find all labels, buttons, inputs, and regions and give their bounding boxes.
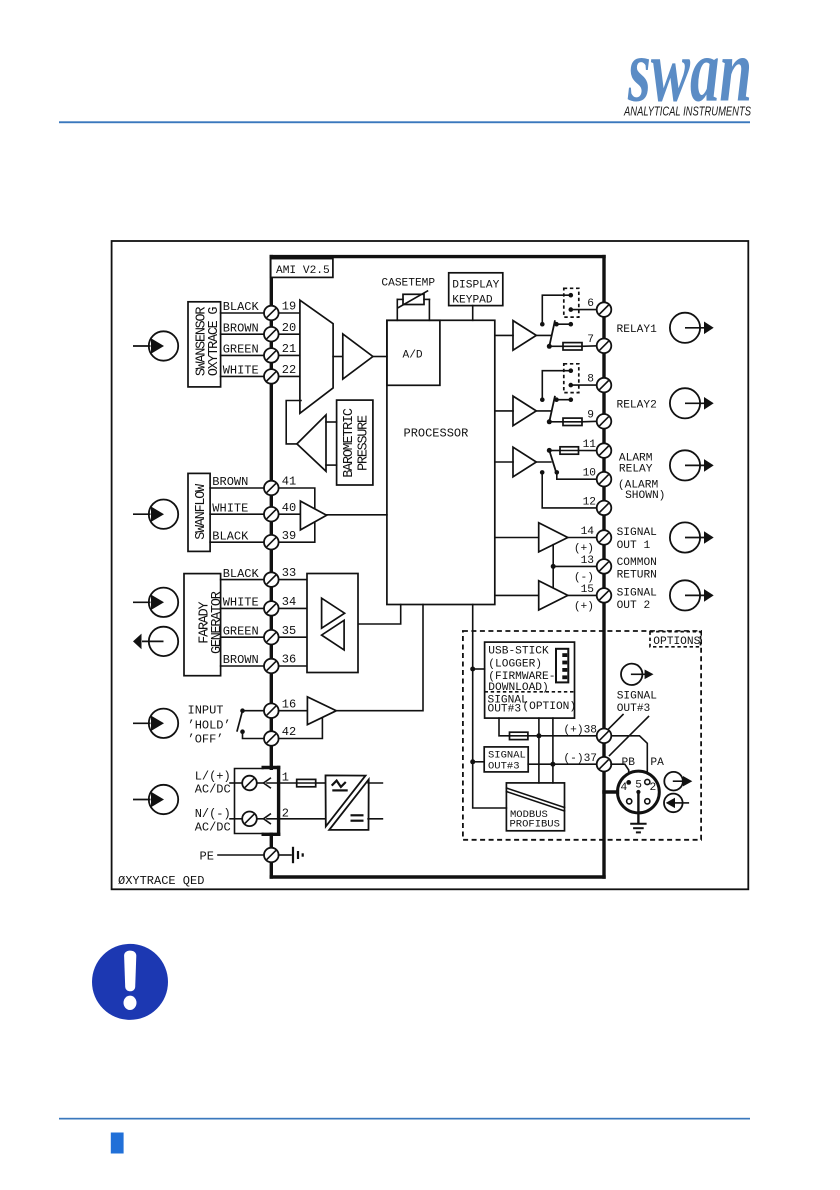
wire BROWN 36: [221, 665, 307, 667]
terminal 37: [597, 757, 612, 772]
svg-text:9: 9: [587, 410, 594, 422]
svg-text:BROWN: BROWN: [223, 653, 259, 667]
svg-text:42: 42: [282, 725, 296, 739]
svg-text:OUT#3: OUT#3: [617, 703, 651, 715]
svg-text:20: 20: [282, 321, 296, 335]
wire PE to earth: [279, 854, 291, 856]
wire WHITE 34: [221, 607, 307, 609]
svg-text:WHITE: WHITE: [223, 364, 259, 378]
common return junction dot: [551, 564, 556, 569]
pin5 ground line: [637, 792, 639, 824]
SWANSENSOR OXYTRACE G box: [188, 302, 221, 387]
junction dot signal3 feed: [470, 759, 475, 764]
svg-text:RELAY1: RELAY1: [617, 324, 658, 336]
wire GREEN 35: [221, 636, 307, 638]
signal out 1 triangle: [539, 523, 568, 552]
svg-text:BLACK: BLACK: [223, 300, 260, 314]
wire common return to terminal 13: [553, 565, 597, 567]
svg-text:OUT 1: OUT 1: [617, 540, 651, 552]
terminal 9: [597, 414, 612, 429]
wire input amp to processor: [336, 605, 423, 711]
svg-text:RELAY2: RELAY2: [617, 399, 657, 411]
signal out3 stub down from option box: [499, 718, 510, 736]
cable connector relay2: [670, 388, 714, 418]
barometric link wire: [286, 401, 301, 444]
cable connector faraday in: [133, 588, 178, 617]
cable connector signal out 1: [670, 522, 714, 552]
terminal 13: [597, 559, 612, 574]
signal out#3 connector circle: [621, 664, 654, 685]
svg-text:DOWNLOAD): DOWNLOAD): [488, 682, 548, 694]
swan logo: [627, 22, 752, 121]
header rule: [59, 121, 750, 123]
svg-text:BROWN: BROWN: [212, 475, 248, 489]
alarm driver input wire: [495, 461, 513, 463]
svg-text:WHITE: WHITE: [212, 501, 248, 515]
svg-text:INPUT: INPUT: [188, 704, 224, 718]
SWANFLOW box: [188, 473, 210, 551]
svg-text:(+): (+): [574, 543, 594, 555]
svg-text:(-)37: (-)37: [563, 753, 597, 765]
svg-text:8: 8: [587, 374, 594, 386]
svg-text:13: 13: [581, 555, 594, 567]
info icon: [92, 944, 168, 1020]
svg-text:41: 41: [282, 475, 296, 489]
wire to signal3 box: [473, 761, 485, 763]
wire pivot to alarm fuse: [549, 450, 560, 452]
terminal 36: [264, 659, 279, 674]
svg-text:L/(+): L/(+): [195, 770, 231, 784]
svg-text:AMI V2.5: AMI V2.5: [276, 265, 330, 277]
svg-text:’HOLD’: ’HOLD’: [188, 718, 231, 732]
wire pentagon to buffer: [333, 356, 343, 358]
svg-text:12: 12: [583, 496, 596, 508]
terminal 42: [264, 731, 279, 746]
mains fuse: [297, 779, 316, 786]
FARADY GENERATOR box: [184, 574, 221, 676]
common return vertical wire: [552, 545, 554, 589]
faraday triangle right: [322, 598, 345, 628]
OPTIONS dashed box: [463, 631, 701, 840]
buffer triangle U2: [343, 334, 373, 379]
signal out 2 triangle: [539, 581, 568, 610]
terminal 10: [597, 472, 612, 487]
svg-text:15: 15: [581, 584, 594, 596]
svg-text:OUT#3: OUT#3: [488, 704, 522, 716]
svg-text:RELAY: RELAY: [619, 464, 653, 476]
svg-text:22: 22: [282, 363, 296, 377]
svg-text:(OPTION): (OPTION): [522, 701, 576, 713]
svg-text:SIGNAL: SIGNAL: [617, 690, 658, 702]
wire switch to 16: [243, 710, 265, 712]
svg-text:39: 39: [282, 529, 296, 543]
main bus: left rail below power bracket: [270, 834, 273, 877]
terminal 39: [264, 535, 279, 550]
svg-text:OUT 2: OUT 2: [617, 600, 651, 612]
svg-text:BLACK: BLACK: [212, 529, 249, 543]
terminal 12: [597, 501, 612, 516]
diagonal link to 37: [610, 717, 649, 756]
alarm switch pivot dot: [547, 448, 552, 453]
DISPLAY KEYPAD box: [449, 273, 503, 306]
svg-text:KEYPAD: KEYPAD: [452, 294, 493, 306]
barometric amplifier triangle: [297, 415, 326, 471]
terminal 19: [264, 306, 279, 321]
wire to usb box: [473, 668, 485, 670]
svg-text:USB-STICK: USB-STICK: [488, 646, 549, 658]
svg-text:A/D: A/D: [403, 350, 423, 362]
AC/DC converter box: [326, 775, 369, 830]
svg-text:(+): (+): [574, 601, 594, 613]
wire 37 to pin4: [611, 764, 629, 779]
terminal 22: [264, 369, 279, 384]
terminal PE: [264, 848, 279, 863]
A/D box: [387, 320, 440, 385]
socket housing: [235, 769, 264, 834]
wire faraday box to processor: [359, 605, 401, 625]
junction dot 38: [536, 733, 541, 738]
cable connector fieldbus out: [664, 772, 692, 791]
main bus: top rail: [271, 255, 604, 258]
svg-text:OXYTRACE G: OXYTRACE G: [207, 307, 222, 377]
svg-text:11: 11: [583, 439, 597, 451]
wire BROWN 41: [210, 488, 315, 509]
svg-text:19: 19: [282, 300, 296, 314]
svg-text:’OFF’: ’OFF’: [188, 732, 224, 746]
svg-text:OUT#3: OUT#3: [488, 761, 520, 773]
signal out 2 input wire: [495, 594, 539, 596]
OPTIONS label box: [650, 632, 701, 647]
cable connector sensor: [133, 331, 178, 360]
faraday driver box: [307, 574, 358, 673]
swanflow amplifier triangle: [300, 501, 326, 530]
terminal 8: [597, 378, 612, 393]
svg-text:SIGNAL: SIGNAL: [617, 587, 658, 599]
terminal 41: [264, 481, 279, 496]
logo subtitle: [623, 105, 751, 119]
alarm driver output wire: [536, 461, 551, 463]
terminal 7: [597, 339, 612, 354]
cable connector signal out 2: [670, 580, 714, 610]
wire BLACK 39: [210, 522, 315, 542]
svg-text:(+)38: (+)38: [563, 724, 597, 736]
svg-text:35: 35: [282, 624, 296, 638]
faraday triangle left: [322, 620, 345, 650]
terminal 6: [597, 302, 612, 317]
wire PE: [218, 854, 264, 856]
input amplifier pentagon: [300, 300, 333, 413]
svg-text:SHOWN): SHOWN): [625, 490, 665, 502]
wire GREEN 21: [221, 354, 300, 356]
junction dot usb feed: [470, 667, 475, 672]
cable connector input: [133, 709, 178, 738]
terminal 38: [597, 729, 612, 744]
terminal 16: [264, 703, 279, 718]
PROCESSOR box: [387, 320, 495, 604]
svg-text:ANALYTICAL INSTRUMENTS: ANALYTICAL INSTRUMENTS: [623, 105, 751, 119]
svg-text:AC/DC: AC/DC: [195, 821, 231, 835]
cable connector relay1: [670, 313, 714, 343]
fuse signal out3: [510, 732, 528, 739]
footer rule: [59, 1118, 750, 1120]
wire switch to 42: [243, 732, 265, 739]
terminal 20: [264, 327, 279, 342]
svg-text:AC/DC: AC/DC: [195, 783, 231, 797]
svg-text:COMMON: COMMON: [617, 557, 657, 569]
svg-text:BAROMETRIC: BAROMETRIC: [342, 408, 357, 478]
terminal 35: [264, 630, 279, 645]
terminal 21: [264, 348, 279, 363]
wire alarm NO contact to terminal 10: [557, 472, 597, 479]
svg-text:(LOGGER): (LOGGER): [488, 658, 542, 670]
svg-text:34: 34: [282, 595, 296, 609]
junction dot 37: [550, 762, 555, 767]
svg-text:PA: PA: [650, 757, 664, 769]
svg-text:PROCESSOR: PROCESSOR: [404, 427, 469, 441]
power terminal L with plug: [230, 776, 297, 791]
svg-text:21: 21: [282, 342, 296, 356]
cable connector power: [133, 785, 178, 814]
wire BLACK 33: [221, 579, 307, 581]
wire 42 to input amp underside: [279, 717, 323, 738]
alarm contact dots: [540, 470, 545, 475]
svg-text:SIGNAL: SIGNAL: [617, 527, 658, 539]
relay 1 block: [495, 288, 597, 350]
svg-text:10: 10: [583, 468, 597, 480]
terminal 14: [597, 530, 612, 545]
cable connector alarm relay: [670, 450, 714, 480]
wire 16 to input amp: [279, 710, 308, 712]
USB-STICK / SIGNAL OUT#3 option box: [485, 642, 575, 718]
wire buffer to A/D: [373, 356, 387, 358]
cable connector fieldbus in: [664, 794, 688, 813]
input amplifier triangle: [307, 697, 336, 725]
svg-text:WHITE: WHITE: [223, 596, 259, 610]
earth ground symbol: [293, 847, 303, 863]
svg-text:PB: PB: [622, 757, 636, 769]
svg-text:PROFIBUS: PROFIBUS: [510, 819, 560, 831]
terminal 40: [264, 507, 279, 522]
vertical option feed B: [552, 718, 554, 783]
wire BROWN 20: [221, 333, 300, 335]
USB plug icon: [556, 649, 568, 683]
power terminal N with plug: [230, 812, 325, 827]
wire WHITE 40: [210, 513, 300, 515]
svg-text:BLACK: BLACK: [223, 567, 260, 581]
svg-text:ALARM: ALARM: [619, 453, 653, 465]
footer marker square: [111, 1133, 124, 1154]
fieldbus round connector: [618, 771, 660, 813]
input switch: [237, 708, 245, 734]
svg-text:(-): (-): [574, 572, 594, 584]
svg-text:40: 40: [282, 501, 296, 515]
svg-text:DISPLAY: DISPLAY: [452, 280, 499, 292]
svg-text:SWANFLOW: SWANFLOW: [194, 483, 209, 540]
svg-text:PE: PE: [200, 849, 214, 863]
wire 38 to pin2: [611, 736, 647, 779]
terminal 33: [264, 572, 279, 587]
svg-text:14: 14: [581, 526, 595, 538]
wire display to processor: [472, 306, 474, 321]
main bus: left rail: [270, 257, 273, 769]
MODBUS PROFIBUS box: [506, 783, 564, 831]
svg-text:5: 5: [635, 780, 642, 792]
svg-text:36: 36: [282, 653, 296, 667]
svg-text:2: 2: [282, 807, 289, 821]
relay 2 block: [495, 364, 597, 426]
barometric wires: [326, 421, 337, 423]
svg-text:ØXYTRACE QED: ØXYTRACE QED: [118, 874, 204, 888]
diagonal link to 38: [607, 715, 624, 732]
svg-text:GREEN: GREEN: [223, 343, 259, 357]
svg-text:RETURN: RETURN: [617, 569, 657, 581]
alarm contact fuse: [560, 447, 579, 454]
svg-text:2: 2: [650, 782, 657, 794]
svg-text:33: 33: [282, 566, 296, 580]
main bus: right rail: [602, 257, 605, 877]
svg-text:OPTIONS: OPTIONS: [653, 636, 700, 648]
cable connector faraday out: [133, 627, 178, 656]
svg-text:CASETEMP: CASETEMP: [381, 278, 435, 290]
wire fuse to terminal 38: [528, 735, 597, 737]
svg-text:N/(-): N/(-): [195, 807, 231, 821]
wire BLACK 19: [221, 312, 300, 314]
svg-text:16: 16: [282, 697, 296, 711]
converter output stubs: [368, 782, 382, 784]
wire signal3 box to terminal 37: [528, 763, 597, 765]
alarm relay driver triangle: [513, 447, 536, 477]
wire alarm fuse to terminal 11: [579, 450, 598, 452]
BAROMETRIC PRESSURE box: [337, 400, 373, 485]
wire alarm NC contact to terminal 12: [542, 472, 597, 508]
connector earth symbol: [630, 824, 646, 833]
divider dashed: [485, 691, 575, 693]
wire fuse to converter: [316, 782, 326, 784]
svg-text:PRESSURE: PRESSURE: [356, 415, 371, 471]
svg-text:GREEN: GREEN: [223, 624, 259, 638]
svg-text:BROWN: BROWN: [223, 321, 259, 335]
wire swanflow amp to processor: [327, 514, 387, 516]
cable connector swanflow: [133, 500, 178, 529]
alarm switch arm: [549, 450, 556, 472]
AMI V2.5 box: [271, 259, 333, 278]
casetemp thermistor: [397, 291, 429, 320]
main bus: bottom rail: [271, 875, 604, 878]
processor feed line to options: [473, 605, 507, 809]
terminal 15: [597, 588, 612, 603]
terminal 34: [264, 601, 279, 616]
wire WHITE 22: [221, 375, 300, 377]
bus stub to connector: [604, 790, 618, 793]
svg-text:4: 4: [621, 782, 628, 794]
svg-text:6: 6: [587, 298, 594, 310]
signal out 1 output wire: [568, 537, 597, 539]
power plug bracket: [263, 768, 278, 835]
vertical option feed A: [538, 718, 540, 783]
signal out 2 output wire: [568, 594, 597, 596]
signal out 1 input wire: [495, 537, 539, 539]
terminal 11: [597, 443, 612, 458]
SIGNAL OUT#3 lower box: [484, 747, 528, 772]
svg-text:7: 7: [587, 334, 594, 346]
svg-text:1: 1: [282, 771, 289, 785]
